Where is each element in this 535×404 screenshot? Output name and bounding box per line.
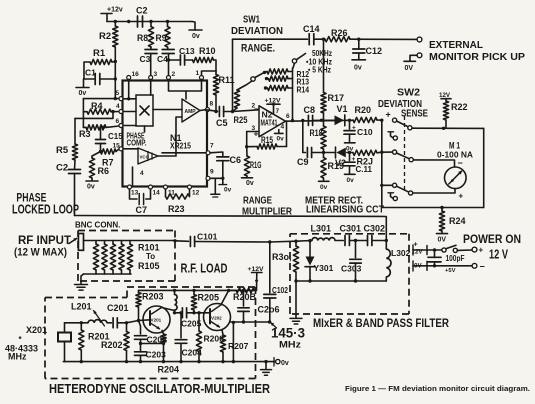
label DEVIATION bbox=[231, 25, 283, 37]
svg-text:MONITOR PICK UP: MONITOR PICK UP bbox=[429, 51, 525, 63]
node L201 left bbox=[80, 321, 83, 324]
label SW2 DEVIATION SENSE bbox=[378, 87, 428, 119]
capacitor C8 bbox=[304, 105, 316, 125]
resistor R105 bbox=[127, 241, 132, 275]
pin 1 top bbox=[196, 70, 204, 80]
capacitor C7 bbox=[130, 189, 151, 215]
resistor R15 bbox=[247, 135, 287, 149]
label pin4 inside bbox=[140, 170, 144, 177]
resistor R13 bbox=[265, 76, 293, 81]
capacitor C1 bbox=[84, 68, 115, 85]
label RANGE bbox=[241, 43, 275, 55]
resistor R301 bbox=[272, 241, 299, 281]
svg-text:C2o6: C2o6 bbox=[258, 305, 280, 315]
resistor R11 bbox=[213, 71, 234, 112]
wire N2 output bbox=[286, 119, 354, 122]
node R205 bottom bbox=[192, 311, 195, 314]
svg-text:R205: R205 bbox=[198, 293, 220, 303]
svg-text:RF INPUT: RF INPUT bbox=[18, 233, 72, 247]
svg-text:XR215: XR215 bbox=[170, 141, 191, 151]
capacitor C14 bbox=[303, 24, 320, 45]
svg-text:R24: R24 bbox=[449, 216, 466, 226]
terminal external monitor 1 bbox=[417, 37, 422, 42]
wire rf load bottom bbox=[81, 274, 131, 284]
capacitor C12 bbox=[353, 39, 382, 59]
heterodyne box bbox=[45, 287, 256, 379]
node R1-R2 bbox=[114, 60, 117, 63]
resistor R204 bbox=[158, 331, 180, 375]
label 145.3 MHz bbox=[270, 322, 305, 349]
label HETERODYNE OSCILLATOR-MULTIPLIER bbox=[49, 382, 270, 396]
stub 0v at C6 bbox=[219, 178, 232, 193]
svg-text:8: 8 bbox=[210, 101, 214, 108]
svg-text:MIxER & BAND PASS FILTER: MIxER & BAND PASS FILTER bbox=[313, 316, 449, 330]
ground below pin9 wire bbox=[211, 178, 220, 197]
resistor R24 bbox=[439, 208, 465, 234]
switch SW2 link dashes bbox=[404, 116, 406, 190]
wire mult stub bbox=[144, 126, 146, 132]
terminal power minus bbox=[472, 262, 485, 272]
wire R1 left lead bbox=[84, 62, 90, 79]
wire N2 pin3 input bbox=[247, 131, 259, 133]
inductor L301 bbox=[311, 224, 336, 241]
rf load box bbox=[78, 231, 175, 282]
node V301 top bbox=[308, 239, 311, 242]
wire V202 collector bbox=[221, 290, 229, 304]
capacitor C13 bbox=[169, 46, 195, 65]
label BNC CONN bbox=[75, 221, 120, 230]
svg-text:6: 6 bbox=[116, 118, 120, 125]
switch SW2 pole3 bbox=[382, 183, 413, 195]
wire SW1 top to C14 bbox=[233, 38, 308, 40]
svg-text:6: 6 bbox=[286, 113, 290, 120]
wire V2 to node bbox=[347, 152, 353, 154]
capacitor 100pF bbox=[428, 250, 465, 267]
capacitor C204 bbox=[175, 311, 202, 362]
pin 9 bbox=[206, 169, 214, 181]
meter M1 bbox=[437, 140, 473, 188]
wire SW2 left bus bbox=[381, 120, 383, 207]
capacitor C205 bbox=[181, 308, 202, 329]
svg-text:V202: V202 bbox=[211, 316, 222, 321]
transistor V202 bbox=[204, 304, 231, 331]
capacitor C203 bbox=[135, 350, 167, 362]
ground 0V below C12 bbox=[352, 60, 366, 72]
resistor R7 bbox=[101, 149, 120, 168]
svg-text:R202: R202 bbox=[101, 340, 123, 350]
wire +12V rail bbox=[107, 21, 192, 23]
resistor R6 bbox=[89, 152, 109, 181]
diode V2 bbox=[335, 147, 346, 168]
resistor R2 bbox=[99, 22, 118, 99]
capacitor C3 bbox=[140, 50, 158, 76]
power 12V for R22 bbox=[439, 92, 451, 101]
resistor R9 bbox=[156, 22, 171, 50]
node collector C205 bbox=[173, 311, 176, 314]
resistor R8 bbox=[137, 22, 154, 50]
node rail-R2 bbox=[114, 20, 117, 23]
ground 0V at rail end bbox=[189, 30, 202, 40]
svg-text:C7: C7 bbox=[136, 205, 148, 215]
svg-text:16: 16 bbox=[132, 71, 140, 78]
svg-text:+: + bbox=[254, 129, 259, 139]
label SW1 bbox=[243, 14, 260, 26]
svg-text:0v: 0v bbox=[277, 136, 285, 143]
wire feedback riser bbox=[286, 121, 288, 146]
svg-text:9: 9 bbox=[210, 169, 214, 176]
svg-text:C2: C2 bbox=[136, 6, 148, 16]
svg-text:3: 3 bbox=[154, 71, 158, 78]
label 10KHz bbox=[306, 57, 332, 67]
node L302 top bbox=[385, 239, 388, 242]
capacitor C2 lower bbox=[56, 163, 81, 216]
svg-text:R22: R22 bbox=[451, 102, 468, 112]
node C101-C102 bbox=[268, 240, 271, 243]
svg-text:0v: 0v bbox=[281, 360, 289, 367]
svg-text:POWER ON: POWER ON bbox=[463, 234, 521, 246]
wire rf load top bbox=[84, 239, 177, 242]
power +12V for N2 bbox=[265, 98, 282, 115]
svg-text:7: 7 bbox=[276, 108, 280, 115]
switch power bbox=[442, 245, 472, 252]
node R3-C15 bbox=[102, 126, 105, 129]
capacitor C202 bbox=[135, 321, 168, 352]
node rail-R9 bbox=[166, 20, 169, 23]
ground 0V below R16 bbox=[242, 178, 254, 187]
wire pin15 internal bbox=[123, 148, 138, 150]
resistor R10 bbox=[185, 46, 216, 71]
wire pole2 to meter bbox=[413, 160, 454, 167]
terminal power plus bbox=[472, 246, 483, 255]
svg-text:Figure 1 — FM deviation monito: Figure 1 — FM deviation monitor circuit … bbox=[345, 384, 530, 393]
ground 0v below C10 bbox=[345, 143, 356, 153]
svg-text:MHz: MHz bbox=[279, 340, 302, 350]
svg-text:C13: C13 bbox=[179, 46, 195, 56]
terminal external monitor 2 bbox=[410, 53, 422, 61]
capacitor C6 bbox=[217, 155, 241, 178]
svg-text:C201: C201 bbox=[107, 303, 129, 313]
svg-text:13: 13 bbox=[131, 190, 139, 197]
node output junction bbox=[268, 320, 271, 323]
svg-text:R20: R20 bbox=[355, 105, 372, 115]
resistor R101 bbox=[93, 241, 98, 275]
wire into mixer bbox=[270, 240, 296, 243]
wire pin6 internal bbox=[123, 125, 136, 127]
resistor R202 bbox=[101, 323, 129, 362]
svg-text:R8: R8 bbox=[137, 33, 148, 43]
switch SW1a arm bbox=[292, 54, 305, 64]
transistor V201 bbox=[143, 306, 170, 333]
svg-text:R15: R15 bbox=[261, 135, 273, 145]
svg-text:(12 W MAX): (12 W MAX) bbox=[14, 247, 67, 259]
resistor R208 bbox=[229, 288, 257, 302]
resistor R20 bbox=[353, 105, 382, 123]
svg-text:−: − bbox=[458, 158, 463, 168]
label PHASE LOCKED LOOP bbox=[12, 190, 79, 216]
label R13 bbox=[297, 77, 310, 87]
label 12V big bbox=[489, 248, 508, 262]
svg-text:R5: R5 bbox=[56, 145, 69, 156]
svg-text:0v: 0v bbox=[224, 187, 232, 194]
resistor R23 bbox=[166, 189, 190, 214]
label meter plus bbox=[459, 192, 464, 201]
svg-text:R6: R6 bbox=[98, 166, 110, 176]
node R11 bottom bbox=[214, 110, 217, 113]
arrow RF input bbox=[69, 238, 77, 244]
label PHASE COMP bbox=[127, 132, 147, 148]
svg-text:R.F. LOAD: R.F. LOAD bbox=[181, 262, 228, 276]
wire pin2 internal bbox=[169, 80, 187, 100]
label RF LOAD bbox=[181, 262, 228, 276]
contact SW2 spare lower bbox=[388, 193, 397, 201]
svg-text:C101: C101 bbox=[197, 232, 218, 242]
power +12V heterodyne bbox=[248, 266, 265, 290]
pin 13 bbox=[128, 185, 139, 197]
multiplier block inside N1 bbox=[136, 95, 153, 126]
wire emitter output bbox=[230, 321, 270, 362]
svg-text:X201: X201 bbox=[26, 325, 47, 335]
svg-text:AMP: AMP bbox=[185, 109, 197, 115]
svg-text:SW1: SW1 bbox=[243, 14, 260, 26]
svg-text:L301: L301 bbox=[311, 224, 332, 234]
svg-text:0v: 0v bbox=[354, 65, 362, 72]
node C1-R2wire bbox=[114, 77, 117, 80]
wire mixer top bbox=[296, 240, 312, 243]
node V1-C10-R20 bbox=[348, 119, 351, 122]
wire vco to amp bbox=[158, 117, 182, 156]
svg-text:145·3: 145·3 bbox=[271, 325, 305, 341]
label R12 bbox=[297, 69, 310, 79]
svg-text:0-100 NA: 0-100 NA bbox=[437, 150, 473, 160]
resistor R25 bbox=[234, 88, 248, 125]
svg-text:7: 7 bbox=[210, 143, 214, 150]
svg-text:14: 14 bbox=[153, 190, 161, 197]
switch SW1b arm bbox=[251, 73, 264, 81]
ground mixer bbox=[290, 281, 302, 324]
capacitor C10 bbox=[344, 120, 373, 142]
svg-text:0v: 0v bbox=[79, 90, 87, 97]
resistor R19 bbox=[321, 153, 344, 182]
resistor R17 bbox=[313, 93, 344, 121]
label MONITOR PICKUP bbox=[429, 51, 525, 63]
svg-text:C302: C302 bbox=[364, 224, 386, 234]
label R14 bbox=[297, 85, 310, 95]
wire pole3 to meter plus bbox=[413, 189, 455, 193]
wire SW1b to R25 bbox=[241, 81, 253, 88]
node C12 tap bbox=[357, 38, 360, 41]
capacitor C2 bbox=[136, 6, 148, 28]
wire pin5 internal bbox=[123, 98, 136, 100]
svg-text:2: 2 bbox=[172, 71, 176, 78]
wire pin9 out bbox=[210, 177, 225, 180]
wire SW1a stub bbox=[293, 63, 295, 68]
resistor R18 bbox=[310, 120, 327, 152]
svg-text:DEVIATION: DEVIATION bbox=[231, 25, 283, 37]
svg-text:C2: C2 bbox=[56, 163, 68, 174]
node base V201 bbox=[137, 319, 140, 322]
svg-text:+: + bbox=[459, 192, 464, 201]
svg-text:+12v: +12v bbox=[107, 7, 123, 14]
wire pin1 internal bbox=[186, 80, 202, 92]
power +12V supply tap bbox=[101, 7, 123, 22]
svg-text:R1G: R1G bbox=[250, 160, 262, 170]
label RF INPUT bbox=[14, 233, 72, 259]
label RANGE MULTIPLIER bbox=[242, 196, 292, 218]
label pin2 minus bbox=[252, 103, 260, 114]
svg-text:0V: 0V bbox=[438, 237, 447, 244]
label pin6 bbox=[286, 113, 290, 120]
wire R4/R3 left riser bbox=[82, 99, 84, 128]
svg-text:COMP.: COMP. bbox=[127, 139, 147, 148]
wire pin4 node to R5 line bbox=[75, 112, 113, 119]
svg-text:R2J: R2J bbox=[357, 157, 374, 167]
wire pin1 to R11 bbox=[202, 71, 217, 76]
wire meter bottom bus bbox=[382, 207, 484, 209]
node C8-R17-R18 bbox=[320, 119, 323, 122]
caption Figure 1 bbox=[345, 384, 530, 393]
node C15-R7-R6 bbox=[99, 150, 102, 153]
svg-text:BNC CONN.: BNC CONN. bbox=[75, 221, 120, 230]
svg-text:V1: V1 bbox=[337, 104, 348, 114]
svg-text:C5: C5 bbox=[216, 118, 228, 128]
svg-text:+: + bbox=[414, 242, 418, 249]
wire pin4 internal bbox=[123, 111, 136, 113]
capacitor C201 bbox=[107, 303, 129, 328]
wire C9 drop bbox=[303, 121, 306, 153]
resistor R26 bbox=[314, 28, 417, 42]
svg-text:RANGE.: RANGE. bbox=[241, 43, 275, 55]
svg-text:0v: 0v bbox=[192, 33, 200, 40]
svg-text:R9: R9 bbox=[156, 33, 167, 43]
bnc connector bbox=[78, 234, 83, 251]
node R24 top bbox=[440, 206, 443, 209]
resistor R103 bbox=[110, 241, 115, 275]
resistor R206 bbox=[196, 313, 224, 362]
svg-text:R14: R14 bbox=[297, 85, 310, 95]
svg-text:C15: C15 bbox=[108, 132, 123, 141]
svg-text:0v: 0v bbox=[87, 184, 95, 191]
svg-text:C3: C3 bbox=[140, 54, 151, 64]
wire pin3 riser bbox=[246, 132, 248, 147]
pin 5 bbox=[116, 90, 124, 101]
node C4 line tap bbox=[167, 58, 170, 61]
wire to V201 base bbox=[127, 320, 151, 323]
wire base V202 bbox=[194, 311, 210, 314]
svg-text:R10: R10 bbox=[199, 46, 216, 56]
capacitor C206 bbox=[238, 289, 280, 324]
switch SW2 pole2 bbox=[382, 150, 414, 162]
wire vco to pin7 bbox=[162, 152, 206, 154]
mixer box bbox=[290, 234, 409, 314]
svg-text:MAT41: MAT41 bbox=[261, 119, 278, 128]
wire emitter bypass bbox=[141, 342, 166, 345]
node R22 bottom bbox=[442, 127, 445, 130]
pin 14 bbox=[149, 185, 161, 197]
wire VCO line to mixer bbox=[75, 216, 387, 241]
capacitor C11 bbox=[344, 153, 373, 175]
svg-text:MULTIPLIER: MULTIPLIER bbox=[242, 206, 292, 218]
resistor R5 bbox=[56, 118, 78, 169]
wire collector node bbox=[175, 310, 181, 313]
inductor L302 bbox=[386, 241, 410, 282]
svg-text:C10: C10 bbox=[357, 127, 373, 137]
svg-text:R17: R17 bbox=[328, 93, 345, 103]
svg-text:−: − bbox=[254, 105, 259, 114]
svg-text:EXTERNAL: EXTERNAL bbox=[429, 39, 484, 51]
svg-text:R2: R2 bbox=[99, 31, 111, 42]
node C201 right bbox=[125, 321, 128, 324]
label EXTERNAL bbox=[429, 39, 484, 51]
ground 0v below C11 bbox=[345, 174, 356, 184]
svg-text:R204: R204 bbox=[158, 365, 180, 375]
wire SW1 left riser bbox=[232, 39, 234, 111]
node pole3 feed bbox=[380, 184, 383, 187]
svg-text:C8: C8 bbox=[304, 105, 316, 115]
node V2-C11-R21 bbox=[348, 151, 351, 154]
svg-text:4: 4 bbox=[140, 170, 144, 177]
svg-text:VCO: VCO bbox=[140, 155, 150, 160]
svg-text:R19: R19 bbox=[328, 161, 345, 171]
svg-text:L302: L302 bbox=[391, 248, 411, 258]
label plus sw2 bbox=[386, 110, 391, 120]
wire pin16 internal bbox=[127, 80, 130, 101]
wire SW1 common riser bbox=[292, 68, 294, 120]
svg-text:1: 1 bbox=[196, 70, 200, 77]
svg-text:C9: C9 bbox=[297, 157, 309, 167]
label pin3 plus bbox=[252, 125, 259, 139]
ground 0V below C1 bbox=[76, 79, 89, 97]
svg-text:0V: 0V bbox=[405, 65, 414, 72]
pin 15 bbox=[113, 143, 124, 151]
capacitor C302 bbox=[349, 224, 386, 246]
svg-text:R101: R101 bbox=[138, 243, 160, 253]
svg-text:0v: 0v bbox=[320, 184, 328, 191]
svg-text:Y301: Y301 bbox=[314, 263, 334, 273]
IC N1 XR215 body bbox=[123, 81, 208, 187]
resistor R201 bbox=[79, 323, 110, 362]
capacitor C9 bbox=[297, 148, 335, 168]
inductor choke L202 bbox=[173, 289, 177, 310]
svg-text:−: − bbox=[480, 262, 485, 272]
svg-text:4: 4 bbox=[116, 103, 120, 110]
resistor R22 bbox=[443, 101, 467, 128]
wire pin3 internal bbox=[150, 80, 152, 96]
pin 2 top bbox=[167, 71, 176, 80]
pin 8 bbox=[206, 101, 214, 112]
svg-text:15: 15 bbox=[113, 143, 121, 150]
svg-text:R20B: R20B bbox=[233, 292, 257, 302]
svg-text:+: + bbox=[386, 110, 391, 120]
resistor R16 bbox=[244, 147, 261, 178]
wire pole1 to meter top bbox=[412, 127, 484, 129]
meter needle bbox=[449, 170, 463, 184]
svg-text:LINEARISING CCT: LINEARISING CCT bbox=[306, 205, 384, 216]
svg-text:C204: C204 bbox=[182, 348, 203, 358]
resistor R104 bbox=[119, 241, 124, 275]
node output-SW1common bbox=[291, 119, 294, 122]
svg-text:+5V: +5V bbox=[445, 268, 456, 274]
wire V201 collector bbox=[162, 308, 175, 311]
node rail-R8 bbox=[149, 20, 152, 23]
resistor R207 bbox=[220, 330, 248, 362]
label R101 to R105 bbox=[138, 243, 160, 272]
wire C102 riser bbox=[269, 242, 271, 293]
capacitor C303 bbox=[341, 239, 362, 283]
contact SW2 spare upper bbox=[388, 132, 397, 140]
op-amp N2 MAT41 bbox=[259, 106, 286, 137]
node V202 collector rail bbox=[227, 289, 230, 292]
svg-text:R3o,: R3o, bbox=[272, 252, 292, 262]
